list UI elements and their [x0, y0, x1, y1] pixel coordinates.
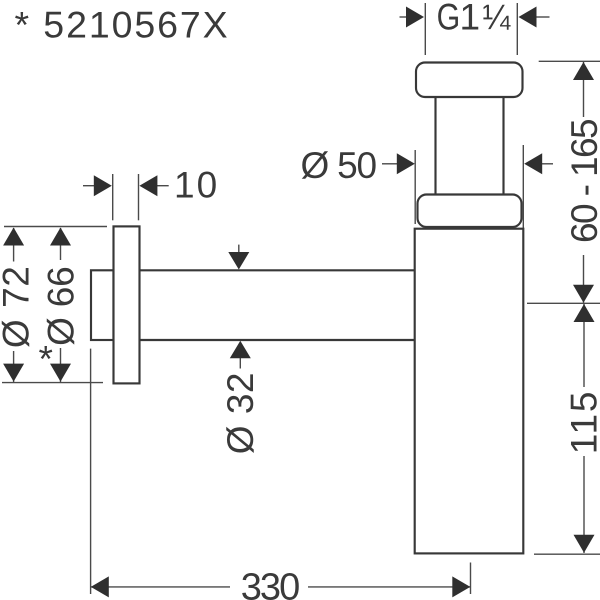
- svg-text:330: 330: [241, 567, 299, 600]
- svg-text:Ø 66: Ø 66: [40, 267, 81, 346]
- svg-text:*: *: [39, 339, 53, 380]
- svg-text:Ø 72: Ø 72: [0, 266, 37, 349]
- svg-text:Ø 50: Ø 50: [301, 145, 377, 186]
- svg-text:115: 115: [564, 390, 600, 454]
- svg-text:G: G: [437, 0, 461, 38]
- svg-text:60 - 165: 60 - 165: [564, 119, 600, 243]
- svg-text:* 5210567X: * 5210567X: [15, 4, 230, 46]
- svg-text:¼: ¼: [483, 0, 511, 37]
- svg-text:Ø 32: Ø 32: [220, 372, 261, 454]
- svg-text:10: 10: [174, 165, 219, 206]
- svg-text:1: 1: [460, 0, 481, 38]
